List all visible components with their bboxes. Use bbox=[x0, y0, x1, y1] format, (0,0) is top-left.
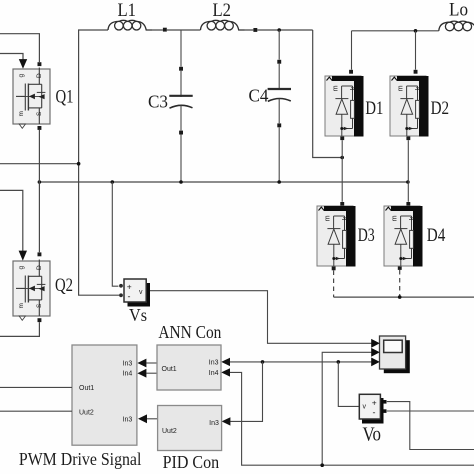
voltage sensor Vo bbox=[359, 394, 386, 423]
wire: C3 to bus bbox=[180, 135, 182, 183]
node: C4 bottom port bbox=[277, 123, 281, 127]
svg-text:Q1: Q1 bbox=[56, 87, 74, 108]
voltage sensor Vs bbox=[119, 279, 150, 307]
svg-text:D: D bbox=[36, 265, 43, 270]
wire: C4 top lead bbox=[278, 64, 280, 90]
wire: down to D2 top bbox=[415, 31, 417, 70]
svg-text:C4: C4 bbox=[249, 86, 269, 106]
svg-text:D4: D4 bbox=[427, 225, 446, 246]
wire: bus to Vs plus bbox=[112, 182, 118, 286]
wire: C3 branch down bbox=[180, 30, 182, 67]
wire: measurement bus to ANN In3 and scope input 3 bbox=[229, 361, 372, 363]
wire: Q1 source to Q2 drain bbox=[38, 130, 40, 252]
node: Vo branch junction bbox=[337, 360, 341, 364]
node: bottom rail scope junction bbox=[320, 463, 324, 467]
wire: D1 anode down to D3 cathode bbox=[341, 140, 343, 202]
node: Q2 drain port bbox=[38, 252, 42, 256]
svg-text:-: - bbox=[128, 292, 131, 302]
svg-text:m: m bbox=[392, 215, 399, 221]
wire: Q2 source to left edge bbox=[0, 322, 39, 336]
node: bus-C3 junction bbox=[179, 180, 183, 184]
svg-text:Vo: Vo bbox=[363, 424, 382, 446]
node: Q1 drain port bbox=[38, 62, 42, 66]
svg-text:-: - bbox=[373, 408, 376, 418]
node: D3 bottom port bbox=[332, 266, 336, 270]
svg-text:L2: L2 bbox=[213, 0, 232, 21]
svg-text:PID Con: PID Con bbox=[163, 452, 220, 472]
svg-text:m: m bbox=[333, 85, 340, 91]
wire: D3 anode dashed down bbox=[333, 271, 335, 298]
capacitor C4 bbox=[268, 89, 291, 101]
wire: C4 branch down bbox=[278, 30, 280, 60]
node: D4 top port bbox=[406, 202, 410, 206]
node: junction x78 y164 bbox=[77, 162, 81, 166]
capacitor C3 bbox=[169, 96, 192, 108]
wire: down to D1 top bbox=[351, 31, 353, 70]
svg-text:In3: In3 bbox=[123, 417, 133, 424]
wire: ANN Out to PWM In4 bbox=[146, 372, 157, 374]
node: L2 right port bbox=[253, 28, 257, 32]
wire: gate arrowhead into Q1 bbox=[19, 59, 27, 69]
node: bus-C4 junction bbox=[277, 180, 281, 184]
wire: scope input 2 from bottom rail bbox=[322, 352, 371, 465]
node: Q1 source port bbox=[38, 126, 42, 130]
svg-text:D1: D1 bbox=[365, 98, 383, 119]
wire: left feed y164 bbox=[0, 163, 79, 165]
svg-text:g: g bbox=[18, 74, 25, 78]
svg-text:Q2: Q2 bbox=[55, 275, 73, 296]
node: D1 anode junction bbox=[340, 156, 344, 160]
node: bus-Vs junction bbox=[111, 180, 115, 184]
block: ANN controller bbox=[157, 345, 221, 390]
node: C3 top port bbox=[179, 67, 183, 71]
node: D4 return junction bbox=[398, 295, 402, 299]
node: bus-D2 junction bbox=[406, 180, 410, 184]
svg-text:D2: D2 bbox=[431, 98, 450, 119]
svg-text:g: g bbox=[18, 266, 25, 270]
svg-text:v: v bbox=[363, 404, 367, 411]
wire: D2 anode down to D4 cathode bbox=[407, 140, 409, 202]
wire: arrowhead PWM In4 bbox=[137, 369, 146, 378]
node: D2 bottom port bbox=[406, 136, 410, 140]
svg-text:D3: D3 bbox=[358, 225, 375, 246]
block: PID controller bbox=[158, 406, 222, 451]
wire: ANN In4 feed from bottom rail bbox=[229, 372, 474, 465]
wire: L1 to L2 bbox=[152, 29, 201, 31]
node: C3 bottom port bbox=[179, 131, 183, 135]
wire: C4 to bus bbox=[278, 127, 280, 182]
node: junction C4 branch bbox=[277, 28, 281, 32]
svg-text:In3: In3 bbox=[123, 360, 133, 367]
wire: C3 bottom lead bbox=[180, 105, 182, 130]
node: Q2 source port bbox=[38, 318, 42, 322]
svg-text:Out1: Out1 bbox=[79, 385, 94, 392]
wire: arrowhead PWM In3 bbox=[137, 359, 146, 368]
diode D3 bbox=[317, 206, 356, 267]
wire: left feed to Q1 drain bbox=[0, 34, 39, 62]
wire: ANN In4 arrowhead bbox=[221, 368, 230, 376]
wire: C3 top lead bbox=[180, 71, 182, 97]
svg-text:v: v bbox=[139, 289, 143, 296]
svg-text:m: m bbox=[18, 303, 25, 308]
wire: Vo plus output to right edge bbox=[387, 402, 474, 450]
wire: ANN Out to PWM In3 bbox=[146, 362, 157, 364]
wire: left feed to Q2 gate bbox=[0, 190, 23, 251]
svg-text:In3: In3 bbox=[209, 360, 219, 367]
node: D2 top port bbox=[414, 70, 418, 74]
wire: Vo minus output to right edge bbox=[387, 410, 474, 412]
wire: PWM Out2 to left edge bbox=[0, 410, 72, 412]
scope block bbox=[371, 336, 410, 373]
svg-text:PWM Drive Signal: PWM Drive Signal bbox=[19, 449, 141, 469]
inductor Lo bbox=[439, 21, 474, 32]
transistor Q2 bbox=[13, 260, 50, 321]
node: D1 top port bbox=[349, 70, 353, 74]
wire: left feed to Q1 gate bbox=[0, 54, 23, 60]
svg-text:+: + bbox=[372, 397, 377, 407]
wire: C4 bottom lead bbox=[278, 99, 280, 124]
svg-text:L1: L1 bbox=[118, 0, 137, 21]
block: PWM Drive Signal subsystem bbox=[72, 345, 137, 445]
wire: main bus bbox=[39, 181, 407, 183]
wire: gate arrowhead into Q2 bbox=[19, 251, 27, 261]
wire: L2 to corner x312 bbox=[245, 29, 313, 31]
svg-text:In4: In4 bbox=[209, 370, 219, 377]
wire: PID In3 arrowhead bbox=[222, 417, 231, 425]
diode D1 bbox=[325, 76, 364, 137]
svg-text:ANN Con: ANN Con bbox=[158, 322, 221, 342]
node: D3 top port bbox=[340, 202, 344, 206]
svg-text:C3: C3 bbox=[148, 92, 168, 112]
node: D1 bottom port bbox=[340, 136, 344, 140]
svg-text:S: S bbox=[36, 303, 43, 308]
svg-text:In3: In3 bbox=[209, 420, 219, 427]
svg-text:Lo: Lo bbox=[449, 0, 468, 21]
node: C4 top port bbox=[277, 60, 281, 64]
wire: rail D1/D2 tops to Lo bbox=[352, 30, 439, 32]
diode D4 bbox=[384, 206, 423, 267]
svg-text:Uut2: Uut2 bbox=[79, 409, 94, 416]
wire: Vo output up to measurement bus bbox=[338, 362, 359, 407]
svg-text:D: D bbox=[36, 73, 43, 78]
wire: PWM Out1 to left edge bbox=[0, 386, 72, 388]
wire: ANN In3 arrowhead bbox=[221, 358, 230, 366]
svg-text:S: S bbox=[36, 111, 43, 116]
node: L1 right port bbox=[163, 28, 167, 32]
node: junction D2 top bbox=[414, 29, 418, 33]
node: D4 bottom port bbox=[398, 266, 402, 270]
inductor L1 bbox=[108, 20, 152, 30]
wire: output return rail bbox=[334, 296, 474, 298]
svg-text:m: m bbox=[398, 85, 405, 91]
diode D2 bbox=[390, 76, 429, 137]
svg-text:+: + bbox=[127, 282, 132, 292]
wire: rail from corner x78 to L1 bbox=[79, 30, 120, 295]
inductor L2 bbox=[201, 20, 245, 30]
wire: arrowhead PWM In3 lower bbox=[138, 414, 147, 423]
node: bus-Q junction bbox=[38, 180, 42, 184]
svg-text:m: m bbox=[18, 111, 25, 116]
svg-text:In4: In4 bbox=[123, 371, 133, 378]
svg-text:Uut2: Uut2 bbox=[162, 428, 177, 435]
wire: Vs output to scope input 1 bbox=[148, 291, 372, 344]
wire: branch down to PID In3 bbox=[230, 362, 262, 422]
wire: PID Out to PWM In3 bbox=[147, 418, 158, 420]
svg-text:Out1: Out1 bbox=[162, 366, 177, 373]
svg-text:m: m bbox=[325, 215, 332, 221]
wire: L2 corner down to D1 anode junction bbox=[313, 30, 343, 158]
svg-text:Vs: Vs bbox=[129, 305, 147, 325]
node: PID branch junction bbox=[261, 360, 265, 364]
wire: D4 anode dashed down bbox=[399, 270, 401, 297]
transistor Q1 bbox=[13, 68, 50, 129]
